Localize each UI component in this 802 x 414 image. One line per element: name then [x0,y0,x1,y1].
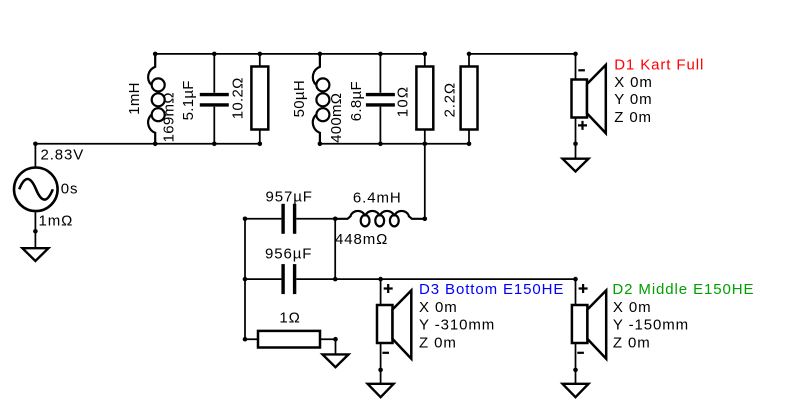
ground below D2 [563,384,589,397]
node R1 bottom [258,142,263,147]
svg-text:X 0m: X 0m [614,74,653,91]
svg-text:D3 Bottom E150HE: D3 Bottom E150HE [419,281,564,298]
capacitor C4 956uF [283,264,295,294]
svg-text:1mΩ: 1mΩ [39,213,74,230]
node source bottom [33,229,38,234]
node C4 right [333,277,338,282]
svg-text:6.8µF: 6.8µF [348,81,365,121]
svg-text:50µH: 50µH [291,80,308,117]
ground below source [22,248,48,261]
svg-text:6.4mH: 6.4mH [353,189,402,206]
node D3 tap [378,277,383,282]
node R3 bottom [467,142,472,147]
node L1 bottom [153,142,158,147]
svg-text:2.2Ω: 2.2Ω [442,82,459,117]
inductor L2 50uH [313,54,330,144]
node R3 top [467,52,472,57]
ground below D1 [563,159,589,172]
svg-text:Y 0m: Y 0m [614,91,652,108]
node R2 top [423,52,428,57]
svg-text:Z 0m: Z 0m [419,335,457,352]
node C3 left [243,217,248,222]
wire mid vertical [334,219,336,279]
node L2 top [318,52,323,57]
inductor L1 1mH [148,54,165,144]
wire N3 bottom rail second network [320,143,469,145]
resistor R3 2.2ohm [461,54,478,144]
wire left vertical [244,219,246,339]
svg-text:1Ω: 1Ω [279,310,300,327]
inductor L3 6.4mH [335,211,425,226]
node D2 bottom [573,368,578,373]
svg-text:X 0m: X 0m [613,299,652,316]
resistor R4 1ohm [245,331,336,348]
node source output [33,142,38,147]
node R4 right [333,337,338,342]
wire drop from N3 to L3 [424,144,426,219]
node D1 bottom [573,142,578,147]
node L1 top [153,52,158,57]
capacitor C1 5.1uF [200,54,229,144]
node C2 bottom [378,142,383,147]
node C4 left [243,277,248,282]
speaker D3 [377,279,411,384]
svg-text:Y -150mm: Y -150mm [613,317,689,334]
svg-text:D2 Middle E150HE: D2 Middle E150HE [612,281,754,298]
ground below D3 [368,384,394,397]
speaker D1 [572,65,606,133]
svg-text:5.1µF: 5.1µF [180,80,197,120]
node L3 right [423,217,428,222]
svg-text:1mH: 1mH [126,82,143,115]
node R2 bottom [423,142,428,147]
svg-text:448mΩ: 448mΩ [335,231,388,248]
wire low node row [245,278,576,280]
svg-text:Y -310mm: Y -310mm [419,317,495,334]
svg-text:956µF: 956µF [265,246,312,263]
svg-text:957µF: 957µF [266,189,313,206]
node R1 top [258,52,263,57]
svg-text:0s: 0s [61,180,79,197]
wire R4 ground stem [335,339,337,354]
capacitor C2 6.8uF [366,54,395,144]
wire source to rail [34,144,36,169]
wire mid node row [245,218,335,220]
svg-text:2.83V: 2.83V [41,147,85,164]
wire N4 top segment to D1 [469,54,576,80]
node C1 top [212,52,217,57]
svg-text:Z 0m: Z 0m [614,109,652,126]
node R4 left [243,337,248,342]
wire N1 main rail from source to first network [35,143,259,145]
svg-text:D1 Kart Full: D1 Kart Full [614,56,704,73]
node C1 bottom [212,142,217,147]
voltage source V1 [14,168,58,212]
capacitor C3 957uF [283,204,295,234]
svg-text:Z 0m: Z 0m [613,335,651,352]
svg-text:10.2Ω: 10.2Ω [229,77,246,119]
svg-text:10Ω: 10Ω [394,86,411,118]
node N4 at D1 [573,52,578,57]
resistor R2 10ohm [416,54,433,144]
ground below R4 [323,354,349,367]
node C2 top [378,52,383,57]
speaker D2 [572,279,606,384]
node D2 tap [573,277,578,282]
wire D1 bottom [575,118,577,159]
svg-text:400mΩ: 400mΩ [328,93,345,143]
wire source bottom [34,212,36,248]
wire N2 top rail [155,53,425,55]
svg-text:X 0m: X 0m [419,299,458,316]
svg-text:169mΩ: 169mΩ [161,92,178,142]
node L2 bottom [318,142,323,147]
resistor R1 10.2ohm [251,54,268,144]
node D3 bottom [378,368,383,373]
node C3 right [333,217,338,222]
